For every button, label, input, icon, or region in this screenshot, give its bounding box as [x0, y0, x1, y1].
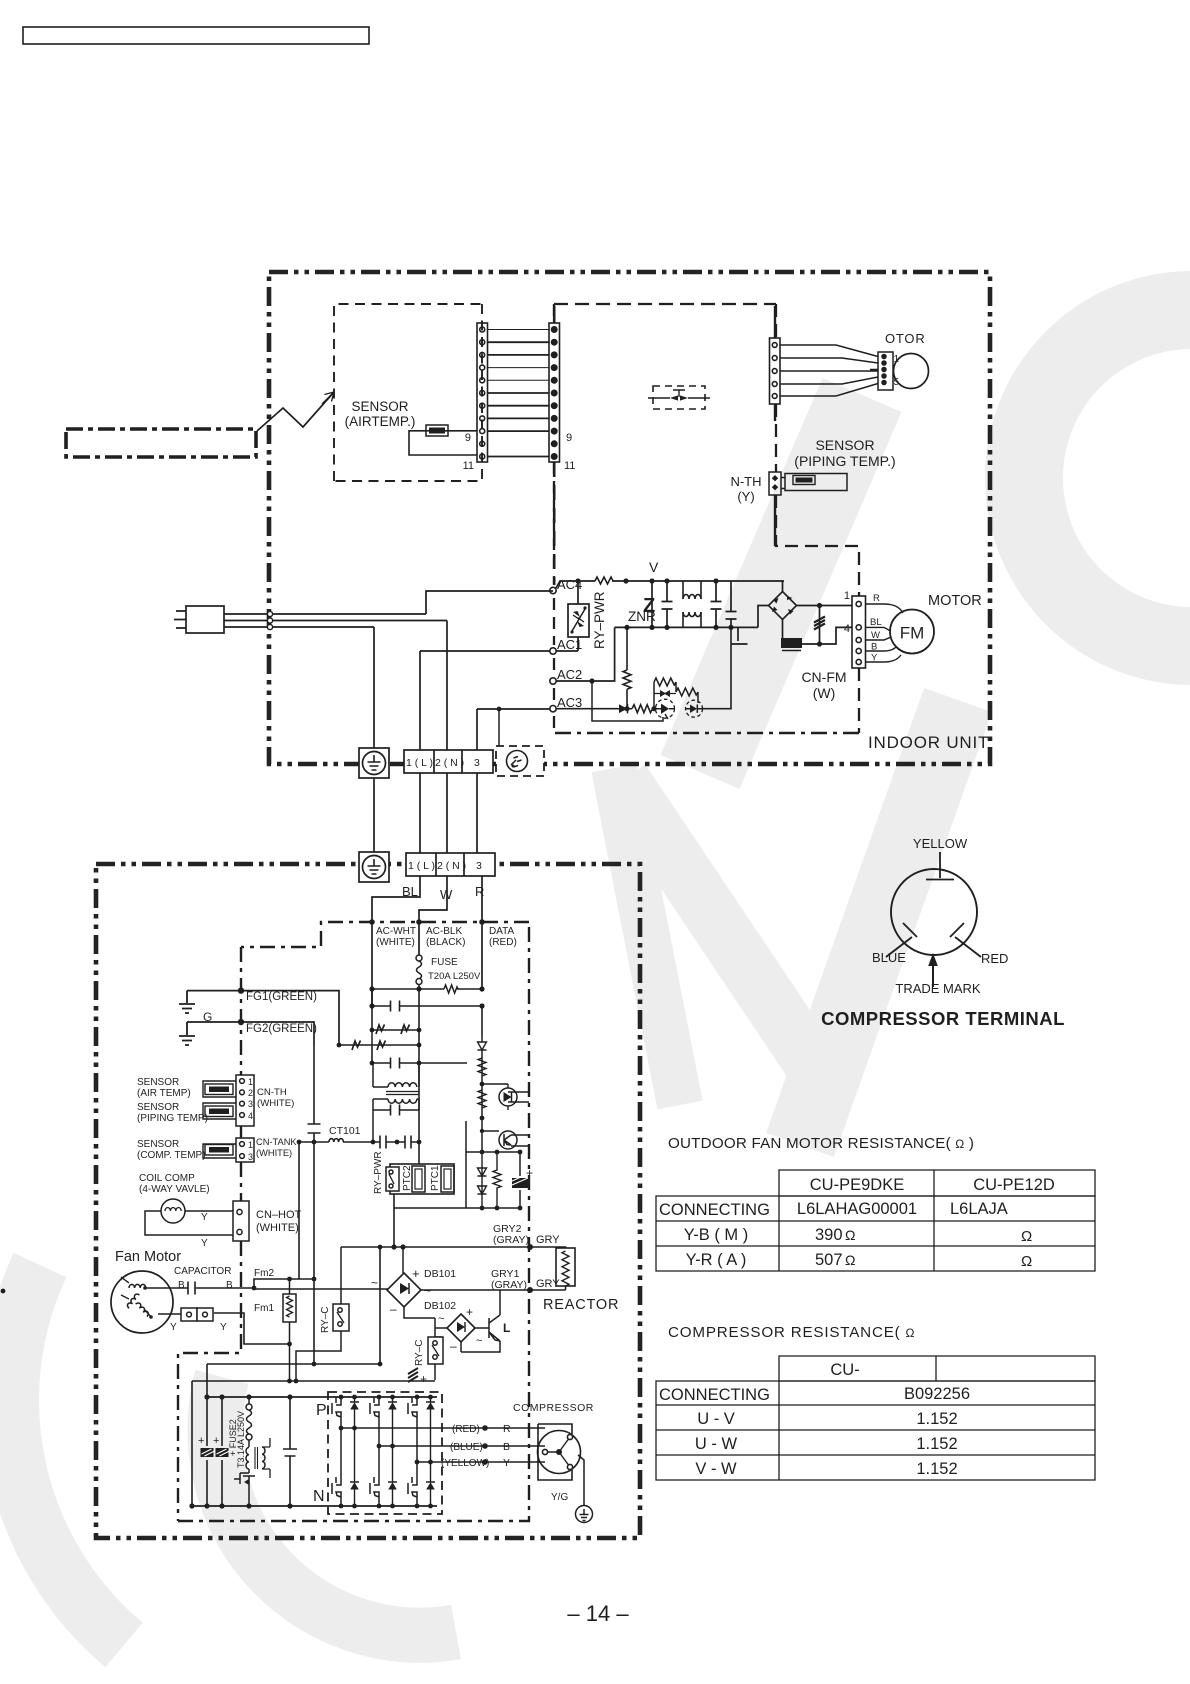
phase wire R: [341, 1427, 545, 1429]
bottom rail 1208: [466, 1207, 520, 1209]
cap on FG2 drop: [308, 1046, 321, 1142]
wire L riser to AC4: [426, 591, 553, 614]
capacitor C-filter1: [662, 581, 673, 627]
svg-text:(RED): (RED): [489, 937, 517, 948]
svg-text:~: ~: [476, 1335, 482, 1347]
fuse F1: [416, 955, 422, 989]
svg-text:YELLOW: YELLOW: [913, 836, 968, 851]
svg-text:+: +: [213, 1435, 219, 1447]
svg-text:Ω: Ω: [1021, 1228, 1032, 1245]
N-TH stub down: [774, 495, 776, 546]
svg-text:(Y): (Y): [737, 489, 754, 504]
capacitor C-filter3: [726, 581, 737, 627]
AC3 row right return: [702, 627, 731, 708]
earth terminal dashed box: [496, 746, 544, 776]
air temp sensor body: [426, 425, 448, 436]
PTC2: [412, 1166, 425, 1192]
svg-text:CN-FM: CN-FM: [801, 669, 846, 685]
pcb2 right edge jog: [776, 495, 859, 733]
surge arrester hatch: [819, 606, 821, 645]
wire BL jog down: [372, 876, 420, 1007]
bus P: [207, 1396, 437, 1398]
svg-text:COMPRESSOR TERMINAL: COMPRESSOR TERMINAL: [821, 1008, 1065, 1029]
svg-text:1 ( L ): 1 ( L ): [406, 757, 433, 769]
fusible resistor on top rail: [595, 577, 613, 584]
svg-text:TRADE MARK: TRADE MARK: [895, 981, 981, 996]
mid rail 1152: [466, 1121, 520, 1208]
svg-text:Ω: Ω: [845, 1252, 855, 1268]
air temp sensor loop wire: [409, 431, 477, 455]
Fm2 wire: [254, 1279, 314, 1288]
svg-text:SENSOR: SENSOR: [137, 1139, 179, 1150]
svg-text:U - V: U - V: [697, 1410, 735, 1428]
table compressor resistance: [656, 1356, 1095, 1480]
pointer arrow polyline: [257, 392, 334, 431]
blue terminal: [886, 923, 917, 957]
pcb2 dashed top edge: [554, 303, 776, 305]
svg-text:Y: Y: [201, 1212, 208, 1223]
svg-text:CT101: CT101: [329, 1125, 361, 1137]
svg-text:B: B: [226, 1280, 233, 1291]
comp temp sensor: [203, 1144, 236, 1158]
svg-text:1 ( L ): 1 ( L ): [408, 860, 435, 872]
snubber resistor lower: [676, 688, 698, 703]
relay RY-PWR box: [568, 604, 589, 637]
connector CN-HOT: [233, 1201, 249, 1241]
transformer small: [262, 1447, 265, 1469]
bus N: [192, 1505, 437, 1507]
svg-text:CN-TANK: CN-TANK: [256, 1137, 297, 1147]
svg-text:Y: Y: [503, 1457, 510, 1469]
RY-PWR leads: [556, 581, 578, 651]
fan motor circle: [111, 1271, 173, 1333]
vertical AC-BLK inner: [418, 989, 420, 1164]
louver motor connector: [878, 352, 893, 390]
node AC2: [550, 678, 556, 684]
ground symbol indoor: [359, 748, 389, 778]
indoor unit border: [269, 272, 990, 764]
svg-text:Ω: Ω: [1021, 1253, 1032, 1270]
svg-text:FG1(GREEN): FG1(GREEN): [246, 991, 317, 1003]
svg-text:R: R: [475, 884, 484, 899]
svg-text:SENSOR: SENSOR: [815, 437, 874, 453]
DB101 top feed: [402, 1247, 404, 1273]
svg-text:Fm1: Fm1: [254, 1303, 274, 1314]
piping temp sensor outdoor: [203, 1103, 236, 1119]
connector strip left (CN indoor 11pin): [477, 323, 488, 462]
svg-text:(WHITE): (WHITE): [256, 1222, 299, 1234]
svg-text:3: 3: [248, 1152, 253, 1162]
louver motor circle: [894, 354, 929, 389]
reactor: [530, 1247, 575, 1290]
svg-text:Y-B ( M ): Y-B ( M ): [684, 1226, 748, 1244]
svg-text:BLUE: BLUE: [872, 950, 906, 965]
svg-text:DATA: DATA: [489, 926, 515, 937]
connector strip right (CN pcb 11pin): [549, 323, 560, 462]
capacitor bus: [283, 1397, 297, 1506]
svg-text:+: +: [526, 1166, 533, 1180]
svg-text:RED: RED: [981, 951, 1008, 966]
strip bottom dashed wire to AC4: [553, 462, 556, 585]
svg-text:(COMP. TEMP): (COMP. TEMP): [137, 1150, 206, 1161]
relay RY-PWR outdoor: [386, 1167, 399, 1191]
watermark big arcs bottom left: [10, 1265, 124, 1645]
svg-text:Ω: Ω: [845, 1227, 855, 1243]
svg-text:(W): (W): [813, 685, 836, 701]
thermal switch dashed box: [648, 386, 710, 409]
hatched varistor 1: [201, 1448, 214, 1457]
ground FG1: [179, 991, 195, 1013]
svg-text:L6LAJA: L6LAJA: [950, 1200, 1008, 1218]
air temp sensor outdoor: [203, 1081, 236, 1097]
top rail L: [556, 581, 784, 588]
node AC1: [550, 648, 556, 654]
svg-text:~: ~: [371, 1276, 378, 1290]
ribbon wires between strips: [488, 330, 550, 457]
relay PTC box: [390, 1164, 454, 1194]
svg-text:CONNECTING: CONNECTING: [659, 1386, 770, 1404]
series caps on CT101 row: [380, 1136, 411, 1149]
PTC1: [441, 1166, 454, 1192]
inter-unit wires: [420, 773, 477, 853]
svg-text:T20A L250V: T20A L250V: [428, 971, 481, 982]
svg-text:MOTOR: MOTOR: [928, 593, 982, 609]
bead row 2: [339, 1030, 419, 1046]
svg-text:507: 507: [815, 1251, 843, 1269]
wire W jog down: [419, 876, 447, 955]
snubber resistor upper: [654, 678, 676, 709]
svg-text:(4-WAY VAVLE): (4-WAY VAVLE): [139, 1184, 210, 1195]
svg-text:V: V: [649, 559, 659, 575]
red terminal: [950, 923, 981, 957]
svg-text:Y/G: Y/G: [551, 1492, 568, 1503]
placeholder groups inserted below: [1, 27, 369, 1293]
yellow terminal: [926, 852, 954, 880]
resistor to 1208: [493, 1152, 501, 1208]
bridge rectifier indoor: [769, 592, 797, 620]
svg-text:RY–PWR: RY–PWR: [592, 591, 607, 649]
svg-text:~: ~: [438, 1313, 444, 1325]
svg-text:FUSE: FUSE: [431, 957, 458, 968]
opto coupler 2: [480, 1129, 529, 1149]
vertical DATA inner: [481, 1006, 483, 1036]
svg-text:ZNR: ZNR: [628, 609, 656, 624]
svg-text:Y: Y: [220, 1322, 227, 1333]
relay RY-C2: [428, 1337, 443, 1380]
svg-text:INDOOR UNIT: INDOOR UNIT: [868, 733, 989, 752]
rail 989: [372, 988, 482, 990]
svg-text:(AIR TEMP): (AIR TEMP): [137, 1088, 191, 1099]
CT101 coil on wire: [299, 1141, 419, 1143]
svg-text:(BLUE): (BLUE): [450, 1442, 483, 1453]
fuse2: [246, 1397, 252, 1447]
FG1 wire: [187, 991, 339, 1045]
common mode choke: [683, 581, 701, 627]
svg-text:R: R: [873, 593, 880, 604]
transformer T1: [373, 1063, 419, 1110]
resistor R-ac3: [632, 705, 654, 713]
igbt U bottom: [332, 1428, 359, 1506]
outdoor pcb dashed border: [178, 922, 529, 1521]
watermark N left bar: [614, 768, 680, 1105]
svg-text:(YELLOW): (YELLOW): [441, 1458, 489, 1469]
svg-text:DB101: DB101: [424, 1268, 456, 1280]
Fm1 wire: [214, 1313, 290, 1344]
plus cap block: [519, 1152, 521, 1208]
igbt W top: [408, 1397, 435, 1462]
bead row 1: [372, 1029, 419, 1031]
DB101 bottom to DB102: [404, 1307, 447, 1337]
svg-text:Fan Motor: Fan Motor: [115, 1249, 181, 1265]
igbt U top: [332, 1397, 359, 1428]
choke L2: [246, 1447, 249, 1469]
svg-text:SENSOR: SENSOR: [137, 1077, 179, 1088]
svg-text:RY–PWR: RY–PWR: [373, 1151, 384, 1194]
svg-text:COIL COMP: COIL COMP: [139, 1173, 195, 1184]
svg-text:B: B: [871, 642, 877, 653]
vertical AC-WHT inner: [371, 989, 373, 1030]
connector CN-FM: [852, 596, 866, 668]
choke black block: [781, 638, 802, 648]
svg-text:1.152: 1.152: [916, 1410, 957, 1428]
capacitor C-filter2: [711, 581, 722, 627]
svg-text:N-TH: N-TH: [730, 474, 761, 489]
triac in dashed circle: [656, 699, 675, 719]
gate wire from AC2: [592, 681, 663, 721]
diode chain DATA: [478, 1036, 487, 1152]
svg-text:1: 1: [248, 1140, 253, 1150]
svg-text:3: 3: [476, 860, 482, 872]
svg-text:1.152: 1.152: [916, 1435, 957, 1453]
svg-text:GRY: GRY: [536, 1234, 560, 1246]
relay RY-C1: [296, 1247, 349, 1381]
wire fan-B to DB101: [254, 1288, 388, 1290]
mosfet Q: [234, 1469, 255, 1506]
svg-text:(BLACK): (BLACK): [426, 937, 465, 948]
svg-text:1: 1: [248, 1077, 253, 1087]
FM wires R BL W B Y: [866, 604, 904, 662]
svg-text:(GRAY): (GRAY): [491, 1279, 527, 1291]
pcb2 dashed bottom edge: [554, 732, 859, 735]
node AC4: [550, 587, 556, 593]
svg-text:Y-R ( A ): Y-R ( A ): [686, 1251, 747, 1269]
stray dot left margin: [1, 1289, 6, 1294]
border pass dots: [267, 611, 272, 616]
bottom rail N: [615, 626, 758, 628]
ground symbol outdoor-top: [359, 852, 389, 882]
igbt V top: [370, 1397, 397, 1446]
varistor ZNR: [651, 581, 653, 627]
terminal block outdoor: [406, 853, 495, 876]
svg-text:CN–HOT: CN–HOT: [256, 1209, 302, 1221]
svg-text:AC-WHT: AC-WHT: [376, 926, 416, 937]
node AC3: [550, 706, 556, 712]
svg-text:RY–C: RY–C: [414, 1340, 425, 1367]
svg-text:(AIRTEMP.): (AIRTEMP.): [345, 414, 416, 429]
svg-text:P: P: [316, 1402, 327, 1419]
plug wires: [224, 614, 447, 627]
earth wire vertical: [373, 627, 375, 852]
rail 1006 with capacitor: [372, 1001, 482, 1012]
wire R down: [481, 876, 483, 989]
title box top-left: [23, 27, 369, 44]
watermark diagonal stroke 1: [700, 395, 862, 772]
long wire 1380: [192, 1247, 435, 1381]
compressor earth wire: [578, 1455, 584, 1506]
svg-text:CAPACITOR: CAPACITOR: [174, 1266, 231, 1277]
outdoor unit border: [96, 864, 640, 1538]
svg-text:FM: FM: [900, 624, 925, 643]
svg-text:–: –: [450, 1339, 457, 1353]
motor FM circle: [890, 610, 934, 654]
svg-text:(RED): (RED): [452, 1424, 480, 1435]
svg-text:AC-BLK: AC-BLK: [426, 926, 462, 937]
svg-text:11: 11: [463, 460, 474, 472]
svg-text:+: +: [466, 1305, 473, 1319]
svg-text:BL: BL: [870, 617, 882, 628]
svg-text:2: 2: [248, 1088, 253, 1098]
svg-text:3: 3: [248, 1099, 253, 1109]
svg-text:CU-: CU-: [830, 1361, 859, 1379]
watermark diagonal stroke 2: [800, 700, 958, 1145]
diac glyph: [654, 693, 676, 695]
earth dashed box connect: [498, 709, 500, 746]
svg-text:Fm2: Fm2: [254, 1268, 274, 1279]
phase wire B: [379, 1445, 545, 1447]
N-TH connector: [769, 472, 781, 495]
svg-text:+: +: [198, 1435, 204, 1447]
svg-text:9: 9: [465, 432, 471, 444]
ground stub tail: [732, 627, 748, 644]
svg-text:AC2: AC2: [557, 667, 582, 682]
ground FG2: [179, 1022, 195, 1045]
svg-text:3: 3: [474, 757, 480, 769]
bridge DB101: [387, 1273, 421, 1307]
wire N riser: [446, 621, 448, 751]
rail 1063 with capacitor: [372, 1046, 467, 1069]
svg-text:RY–C: RY–C: [320, 1307, 331, 1334]
svg-text:L6LAHAG00001: L6LAHAG00001: [797, 1200, 917, 1218]
phase wire Y: [417, 1461, 545, 1463]
svg-text:+: +: [420, 1372, 427, 1386]
svg-text:CU-PE12D: CU-PE12D: [973, 1176, 1055, 1194]
bridge AC feeds: [758, 581, 783, 627]
svg-text:PTC2: PTC2: [402, 1165, 413, 1191]
svg-text:L: L: [503, 1321, 510, 1335]
wire terminal3 riser: [477, 709, 550, 750]
svg-text:2 ( N ): 2 ( N ): [437, 860, 466, 872]
junction dots on pcb edge: [369, 919, 375, 925]
GRY2 wire: [341, 1246, 530, 1248]
svg-text:+: +: [412, 1266, 420, 1281]
svg-text:Y: Y: [871, 653, 878, 664]
svg-text:FG2(GREEN): FG2(GREEN): [246, 1023, 317, 1035]
svg-text:Y: Y: [170, 1322, 177, 1333]
FG2 wire: [187, 1022, 314, 1046]
svg-text:(PIPING TEMP): (PIPING TEMP): [137, 1113, 208, 1124]
svg-text:9: 9: [566, 432, 572, 444]
svg-text:(WHITE): (WHITE): [257, 1098, 294, 1109]
svg-text:11: 11: [564, 460, 575, 472]
svg-text:Y: Y: [201, 1238, 208, 1249]
trade mark arrow: [932, 965, 934, 987]
block bottom wires: [394, 1194, 466, 1247]
svg-text:B: B: [178, 1280, 185, 1291]
AC3 row wire: [556, 708, 617, 710]
AC2 branch wire: [556, 627, 615, 681]
watermark ring letter C top right: [1024, 310, 1190, 646]
fan motor terminal boxes: [158, 1308, 213, 1321]
left rail verticals: [192, 1364, 222, 1506]
resistor R-ac2 vertical: [623, 627, 631, 708]
arrowhead: [322, 392, 334, 404]
model label dash-dot box: [66, 429, 256, 457]
capacitor fan: [167, 1282, 254, 1295]
louver motor connector strip 5pin: [770, 306, 781, 421]
svg-text:SENSOR: SENSOR: [137, 1102, 179, 1113]
table fan resistance: [656, 1170, 1095, 1271]
diode in dashed circle: [686, 700, 703, 717]
svg-text:T3.14A L250V: T3.14A L250V: [236, 1411, 246, 1468]
svg-text:– 14 –: – 14 –: [567, 1601, 629, 1626]
terminal circle: [891, 869, 977, 955]
zener pair column: [478, 1152, 487, 1208]
diode D-ac3: [617, 704, 632, 713]
svg-text:U - W: U - W: [695, 1435, 738, 1453]
pcb2 dashed left edge: [553, 304, 555, 733]
svg-text:OTOR: OTOR: [885, 331, 926, 346]
resistor on rail 989: [444, 985, 458, 993]
pcb2 dashed right edge upper: [775, 304, 777, 472]
bridge DC out wires: [783, 606, 853, 645]
wire terminal1 riser: [420, 651, 550, 750]
connector CN-TH: [236, 1075, 254, 1126]
resistor box vertical: [283, 1279, 296, 1381]
svg-text:(PIPING TEMP.): (PIPING TEMP.): [794, 453, 895, 469]
igbt W bottom: [408, 1462, 435, 1506]
svg-text:R: R: [503, 1423, 511, 1435]
svg-text:390: 390: [815, 1226, 843, 1244]
svg-text:1.152: 1.152: [916, 1460, 957, 1478]
compressor motor: [538, 1424, 581, 1480]
svg-text:AC3: AC3: [557, 695, 582, 710]
ground compressor: [576, 1506, 593, 1523]
junction dots top rail: [575, 578, 580, 583]
svg-text:1: 1: [844, 590, 850, 602]
power plug: [174, 606, 224, 633]
terminal block indoor: [404, 750, 493, 773]
svg-text:COMPRESSOR: COMPRESSOR: [513, 1402, 594, 1414]
louver motor wires: [780, 345, 878, 396]
svg-text:OUTDOOR FAN MOTOR RESISTANCE(: OUTDOOR FAN MOTOR RESISTANCE( Ω ): [668, 1135, 974, 1152]
opto coupler 1: [482, 1084, 529, 1110]
svg-text:N: N: [313, 1488, 325, 1505]
svg-text:COMPRESSOR RESISTANCE( Ω: COMPRESSOR RESISTANCE( Ω: [668, 1324, 915, 1341]
svg-text:V - W: V - W: [695, 1460, 737, 1478]
svg-text:PTC1: PTC1: [430, 1165, 441, 1191]
svg-text:SENSOR: SENSOR: [351, 399, 408, 414]
svg-text:REACTOR: REACTOR: [543, 1297, 619, 1313]
svg-text:CONNECTING: CONNECTING: [659, 1201, 770, 1219]
svg-text:~: ~: [424, 1284, 431, 1298]
svg-text:(WHITE): (WHITE): [376, 937, 415, 948]
GRY1 wire: [421, 1289, 530, 1291]
coil comp solenoid: [145, 1199, 234, 1235]
svg-text:W: W: [871, 630, 880, 641]
svg-text:B092256: B092256: [904, 1385, 970, 1403]
svg-text:2 ( N ): 2 ( N ): [435, 757, 464, 769]
bridge DB102: [447, 1314, 475, 1342]
